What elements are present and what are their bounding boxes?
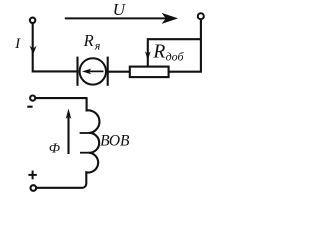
U arrow head — [163, 14, 177, 23]
svg-text:я: я — [94, 38, 101, 52]
terminal top-right — [198, 13, 204, 19]
slider arrow head — [145, 51, 151, 60]
terminal bottom-left (plus) — [31, 185, 37, 191]
coil cusp tick 2 — [80, 152, 88, 154]
flux arrow — [67, 117, 69, 155]
svg-text:ВОВ: ВОВ — [100, 133, 130, 150]
armature circle Rя — [80, 58, 106, 84]
wire armature to resistor — [108, 71, 130, 73]
svg-text:R: R — [152, 41, 165, 62]
inductor coil BOB winding — [36, 97, 99, 188]
svg-text:доб: доб — [166, 50, 185, 64]
armature brush bar right — [107, 57, 109, 86]
svg-text:Ф: Ф — [49, 142, 60, 157]
svg-text:R: R — [83, 31, 94, 50]
plus sign — [28, 174, 36, 176]
terminal mid-left (minus) — [30, 96, 35, 101]
coil cusp tick 1 — [80, 132, 89, 134]
armature U brush bar left — [76, 57, 78, 86]
minus sign — [27, 106, 32, 108]
I current arrow head — [30, 46, 37, 55]
wire slider branch down to resistor — [148, 39, 201, 66]
svg-text:U: U — [113, 0, 127, 19]
wire mid terminal to coil — [35, 97, 86, 99]
armature inner arrow — [87, 70, 104, 72]
resistor Rдоб body — [130, 67, 169, 78]
terminal top-left — [30, 18, 35, 23]
wire right vertical from terminal to resistor right — [169, 19, 201, 72]
wire U voltage arrow line — [65, 17, 167, 19]
wire left branch from top-left terminal down and right to armature — [33, 23, 78, 71]
svg-text:I: I — [14, 36, 21, 52]
